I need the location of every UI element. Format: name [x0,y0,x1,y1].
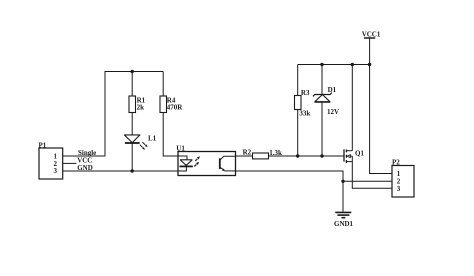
LED L1 [124,135,157,150]
svg-text:R2: R2 [243,148,252,156]
svg-text:33k: 33k [299,109,310,117]
node: rail junction D1 [320,63,323,66]
node: rail junction VCC1 [368,63,371,66]
power VCC1 [362,30,381,38]
wire: P1 pin3 GND to U1 cathode [63,170,178,172]
svg-text:3: 3 [397,185,401,193]
node: emitter/ground junction to P2 pin2 [341,180,344,183]
svg-text:GND: GND [77,164,93,172]
wire: R4 down and right to U1 [163,113,178,157]
connector P2 [392,159,414,197]
ground GND1 [334,212,354,228]
wire: U1 emitter to ground and P2 pin2 [236,171,344,212]
resistor R2 1.3k [243,148,282,159]
svg-text:3: 3 [54,167,58,175]
svg-text:2k: 2k [137,104,145,112]
node: gate wire junction with D1 [320,154,323,157]
node: rail junction at R1 branch [131,70,134,73]
resistor R4 470R [160,96,183,113]
wire: right VCC rail [298,64,370,66]
wire: R3 to gate wire [297,110,299,157]
wire: R2 to Q1 gate [269,155,345,157]
wire: U1 collector to R2 [236,155,253,157]
wire: rail down to D1 [321,65,323,95]
svg-text:GND1: GND1 [334,220,354,228]
wire: D1 to gate wire [321,102,323,156]
node: rail junction Q1 drain [351,63,354,66]
transistor Q1 NMOS [344,149,364,163]
wire: P1 pin1 Single up to left rail over to R4 [63,72,164,157]
node: GND wire junction at LED branch [131,169,134,172]
diode D1 zener 12V [313,86,339,116]
svg-text:R3: R3 [301,89,310,97]
svg-text:12V: 12V [327,108,339,116]
wire: rail down to R3 [297,65,299,96]
svg-text:470R: 470R [167,104,184,112]
wire: R1 to LED L1 [131,113,133,135]
wire: P1 pin2 VCC stub [63,162,77,164]
svg-text:D1: D1 [328,86,337,94]
wire: rail down through R4 to U1 anode [162,72,164,97]
resistor R1 2k [129,96,146,113]
wire: LED to GND wire [131,143,133,171]
svg-text:VCC1: VCC1 [362,30,381,38]
wire: Q1 source down to P2 pin3 [352,156,392,188]
svg-text:Q1: Q1 [355,149,364,157]
resistor R3 33k [295,89,311,118]
node: gate wire junction with R3 [296,154,299,157]
svg-text:L1: L1 [148,135,157,143]
optocoupler U1 [176,145,235,176]
wire: rail down to R1 [131,72,133,97]
wire: junction to P2 pin2 [343,180,392,182]
svg-text:P1: P1 [39,141,47,149]
connector P1 [39,141,63,179]
wire: VCC1 down through rail to P2 pin1 [370,38,392,174]
wire: Q1 drain up to rail [351,65,353,151]
